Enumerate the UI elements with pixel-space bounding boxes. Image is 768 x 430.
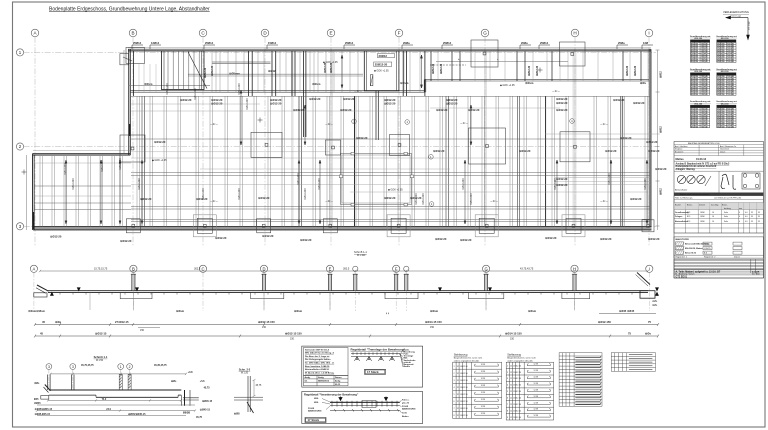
svg-text:12: 12 — [510, 385, 512, 387]
svg-text:②Ø12-200: ②Ø12-200 — [470, 193, 473, 205]
svg-text:①Ø12-20: ①Ø12-20 — [633, 101, 645, 105]
svg-text:Folie: Folie — [724, 216, 728, 218]
svg-text:12: 12 — [510, 365, 512, 367]
regeldetail panel 2 — [302, 392, 423, 424]
svg-text:②Ø12-20: ②Ø12-20 — [440, 63, 443, 74]
svg-text:CEM I: CEM I — [700, 221, 705, 223]
svg-text:4.0: 4.0 — [745, 221, 748, 223]
svg-text:25Ø14: 25Ø14 — [443, 41, 452, 45]
svg-text:Ø12: Ø12 — [691, 126, 694, 128]
svg-text:②Ø12-200: ②Ø12-200 — [72, 178, 75, 190]
svg-text:⑦Øsm: ⑦Øsm — [144, 82, 153, 86]
svg-text:12.50: 12.50 — [463, 387, 468, 389]
svg-text:12.38: 12.38 — [481, 364, 486, 366]
section below labels — [28, 309, 635, 314]
svg-text:Schn. 2-2: Schn. 2-2 — [239, 367, 251, 371]
svg-text:CEM I: CEM I — [700, 216, 705, 218]
svg-text:45: 45 — [732, 125, 734, 128]
svg-text:45: 45 — [42, 320, 45, 324]
svg-text:⑥Ø8: ⑥Ø8 — [234, 412, 240, 416]
hatched columns 1,2 — [119, 375, 131, 391]
svg-text:Beton-: Beton- — [722, 203, 728, 206]
svg-text:20Ø12: 20Ø12 — [379, 54, 388, 58]
svg-text:I: I — [648, 31, 649, 36]
svg-text:4: 4 — [507, 385, 508, 387]
svg-text:Schneider 08/T B 101.4: Schneider 08/T B 101.4 — [305, 348, 330, 351]
section footings — [120, 292, 590, 298]
svg-text:Folie o.: Folie o. — [402, 400, 410, 402]
corner shaft at B — [120, 47, 145, 64]
svg-text:②Øa: ②Øa — [55, 320, 61, 324]
svg-text:12.50: 12.50 — [463, 401, 468, 403]
grid row markers 1-3 — [16, 49, 656, 230]
svg-text:150: 150 — [722, 61, 725, 63]
svg-text:150: 150 — [695, 126, 698, 128]
stair shaft with treads — [162, 51, 205, 90]
svg-text:②Ø12: ②Ø12 — [660, 126, 663, 133]
svg-text:25Ø14: 25Ø14 — [205, 41, 214, 45]
svg-text:↔4×↔: ↔4×↔ — [552, 89, 561, 93]
svg-text:7.53: 7.53 — [727, 94, 731, 96]
svg-text:Biegerollendurchm. wenn nicht: Biegerollendurchm. wenn nicht — [454, 357, 483, 360]
extension top offset line — [33, 150, 130, 152]
detail dims below — [36, 399, 196, 415]
bent bar shapes — [721, 174, 736, 189]
short chain right — [599, 313, 656, 315]
svg-text:75: 75 — [648, 320, 651, 324]
svg-text:Ø8/Ø8: Ø8/Ø8 — [183, 412, 191, 415]
svg-text:B25: B25 — [687, 216, 690, 218]
svg-text:②Ø12-200: ②Ø12-200 — [304, 188, 307, 200]
svg-text:C: C — [201, 266, 204, 271]
svg-text:⑤Øsm: ⑤Øsm — [430, 309, 439, 313]
svg-text:C20/25: C20/25 — [704, 248, 711, 250]
svg-text:①Ø12-20: ①Ø12-20 — [468, 108, 480, 112]
panel2 stueck box — [305, 418, 326, 423]
svg-text:12.50: 12.50 — [463, 394, 468, 396]
svg-text:①Ø12-20: ①Ø12-20 — [270, 102, 282, 106]
spacer marks on slab — [51, 288, 659, 296]
title block header rows — [674, 145, 764, 156]
svg-text:⑤Øsm: ⑤Øsm — [528, 309, 537, 313]
section columns — [131, 274, 577, 291]
svg-text:②Ø12-200: ②Ø12-200 — [608, 173, 611, 185]
svg-text:3: 3 — [48, 365, 50, 369]
svg-text:①Ø12-20: ①Ø12-20 — [630, 197, 642, 201]
svg-text:①Ø12-20: ①Ø12-20 — [556, 183, 568, 187]
svg-text:35: 35 — [758, 216, 760, 218]
detail slab — [41, 385, 185, 406]
svg-text:①Ø12-20: ①Ø12-20 — [120, 239, 132, 243]
svg-text:◆ GOK +1.05: ◆ GOK +1.05 — [323, 61, 338, 64]
svg-text:25Ø14: 25Ø14 — [540, 41, 549, 45]
svg-text:Stahlauszug: Stahlauszug — [507, 354, 521, 357]
regeldetail panel 1 — [302, 346, 423, 387]
svg-text:①Ø12-20: ①Ø12-20 — [556, 177, 568, 181]
svg-text:①Ø12-20: ①Ø12-20 — [433, 149, 445, 153]
svg-text:⑦Øsm/⑦Øsm: ⑦Øsm/⑦Øsm — [28, 309, 46, 313]
svg-text:12Ø14: 12Ø14 — [151, 41, 160, 45]
svg-text:②Ø12: ②Ø12 — [660, 188, 663, 195]
svg-text:CEM I: CEM I — [700, 212, 705, 214]
svg-text:F: F — [398, 31, 401, 36]
svg-text:Bew. beachten 1.048.16: Bew. beachten 1.048.16 — [305, 365, 330, 368]
svg-text:Beton B 25: Beton B 25 — [685, 252, 697, 255]
svg-text:①Ø12-20: ①Ø12-20 — [215, 236, 227, 240]
svg-text:①Ø12-20: ①Ø12-20 — [435, 237, 447, 241]
svg-text:M 1:20: M 1:20 — [241, 372, 249, 374]
svg-text:lü 50: lü 50 — [402, 413, 408, 415]
svg-text:②Ø12-20: ②Ø12-20 — [626, 65, 629, 76]
svg-text:Stegbüro: Stegbüro — [675, 148, 682, 151]
svg-text:①Ø45/②Ø45-15: ①Ø45/②Ø45-15 — [35, 408, 53, 411]
svg-text:deckung: deckung — [724, 208, 731, 210]
svg-text:4: 4 — [454, 387, 455, 389]
svg-text:Halle 3+4 Werkzeugn.: Halle 3+4 Werkzeugn. — [675, 197, 693, 199]
svg-text:4: 4 — [739, 212, 740, 214]
svg-text:8: 8 — [507, 410, 508, 412]
svg-text:9: 9 — [507, 417, 508, 419]
right T detail — [183, 390, 199, 406]
svg-text:4: 4 — [739, 221, 740, 223]
svg-text:②Ø12-20: ②Ø12-20 — [211, 65, 214, 76]
svg-text:12.50: 12.50 — [463, 373, 468, 375]
svg-text:④Øs: ④Øs — [652, 300, 658, 303]
svg-text:①Ø12-20: ①Ø12-20 — [545, 236, 557, 240]
svg-text:Abstandhalter 4.048.16: Abstandhalter 4.048.16 — [305, 368, 330, 371]
rotated labels top band — [204, 62, 637, 78]
circled number callouts — [352, 119, 575, 207]
svg-text:Zuschlag: Zuschlag — [711, 204, 718, 206]
svg-text:7.53: 7.53 — [701, 61, 705, 63]
svg-text:②: ② — [656, 294, 658, 297]
svg-text:12: 12 — [510, 417, 512, 419]
svg-text:①Ø12-20: ①Ø12-20 — [648, 149, 660, 153]
svg-text:Abstandhalter: Abstandhalter — [675, 189, 688, 192]
svg-text:35: 35 — [751, 221, 753, 223]
svg-text:12.50: 12.50 — [516, 365, 521, 367]
svg-text:Ø08-: Ø08- — [314, 402, 319, 404]
svg-text:4.0: 4.0 — [745, 216, 748, 218]
svg-text:B25: B25 — [687, 221, 690, 223]
svg-text:②Ø12-200: ②Ø12-200 — [101, 160, 104, 172]
svg-text:02.: 02. — [305, 381, 308, 383]
svg-text:35: 35 — [751, 216, 753, 218]
svg-text:⑦Øsm: ⑦Øsm — [525, 81, 534, 85]
svg-text:12: 12 — [510, 398, 512, 400]
extra top band callouts — [144, 58, 646, 86]
svg-text:①Ø12-20: ①Ø12-20 — [605, 149, 617, 153]
svg-text:②Ø12-20: ②Ø12-20 — [432, 63, 435, 74]
svg-text:7.53: 7.53 — [701, 94, 705, 96]
svg-text:①Ø12-20: ①Ø12-20 — [309, 97, 321, 101]
svg-text:7: 7 — [507, 404, 508, 406]
svg-text:①Ø12-20: ①Ø12-20 — [340, 108, 352, 112]
svg-text:②Ø12-200: ②Ø12-200 — [238, 188, 241, 200]
svg-text:45,75,45,75: 45,75,45,75 — [81, 364, 94, 367]
svg-text:Iändg.: Iändg. — [318, 377, 325, 379]
section hanger ticks — [60, 292, 632, 294]
panel1 leader fan — [400, 350, 403, 368]
svg-text:①Ø12-20: ①Ø12-20 — [556, 101, 568, 105]
svg-text:Die Bew. der 2. Lage ist: Die Bew. der 2. Lage ist — [305, 355, 330, 358]
svg-text:12.50: 12.50 — [516, 410, 521, 412]
svg-text:⑦Ø45: ⑦Ø45 — [34, 402, 41, 405]
svg-text:①Ø12-20: ①Ø12-20 — [646, 140, 658, 144]
svg-text:Registriert: 2: Registriert: 2 — [704, 256, 716, 259]
svg-text:12: 12 — [457, 380, 459, 382]
svg-text:⑤Ø14-15 150: ⑤Ø14-15 150 — [425, 320, 442, 324]
svg-text:④Ø45/②Ø45-15: ④Ø45/②Ø45-15 — [128, 413, 146, 416]
svg-text:35: 35 — [758, 212, 760, 214]
revision table — [674, 259, 764, 278]
dark band — [674, 193, 764, 196]
svg-text:25Ø14: 25Ø14 — [345, 41, 354, 45]
svg-text:6: 6 — [454, 401, 455, 403]
svg-text:Ø12: Ø12 — [717, 94, 720, 96]
svg-text:②Ø12-200: ②Ø12-200 — [644, 178, 647, 190]
svg-text:Ø12: Ø12 — [691, 94, 694, 96]
svg-text:②Ø12-200: ②Ø12-200 — [462, 178, 465, 190]
svg-text:12.50: 12.50 — [516, 417, 521, 419]
svg-text:②Ø12-200: ②Ø12-200 — [554, 178, 557, 190]
title block — [674, 142, 764, 279]
floor plan outline — [33, 49, 652, 230]
svg-text:unt. Lage: unt. Lage — [748, 20, 751, 30]
svg-text:12.38: 12.38 — [534, 409, 539, 411]
right end labels — [652, 288, 658, 307]
svg-text:25Øa: 25Øa — [618, 41, 625, 45]
svg-text:⑤Øs: ⑤Øs — [652, 304, 658, 307]
svg-text:16: 16 — [712, 216, 714, 218]
svg-text:300,5: 300,5 — [343, 267, 350, 270]
svg-text:①Ø12-20: ①Ø12-20 — [600, 237, 612, 241]
svg-text:45,75: 45,75 — [196, 416, 203, 419]
svg-text:45: 45 — [706, 125, 708, 128]
svg-text:17 Stück: 17 Stück — [308, 418, 320, 422]
svg-text:6: 6 — [507, 398, 508, 400]
svg-text:↔4×↔: ↔4×↔ — [600, 199, 609, 203]
stair labels — [374, 54, 395, 67]
svg-text:12.50: 12.50 — [516, 372, 521, 374]
svg-text:①Ø12-20: ①Ø12-20 — [655, 167, 667, 171]
svg-text:②Ø12-200: ②Ø12-200 — [422, 193, 425, 205]
detail columns — [48, 375, 74, 391]
svg-text:E: E — [329, 31, 332, 36]
svg-text:17 Stück: 17 Stück — [367, 370, 379, 374]
svg-text:WN: 246-47 Sm der Bewg. 4: WN: 246-47 Sm der Bewg. 4 — [305, 352, 334, 355]
svg-text:Schnitt 1-1: Schnitt 1-1 — [94, 355, 108, 359]
svg-text:5: 5 — [454, 394, 455, 396]
svg-text:12.50: 12.50 — [463, 415, 468, 417]
svg-text:Gezeichnet: Gezeichnet — [720, 148, 730, 151]
svg-text:Teil / Blatt: Teil / Blatt — [752, 273, 761, 276]
svg-text:12.38: 12.38 — [481, 371, 486, 373]
svg-text:12.38: 12.38 — [481, 406, 486, 408]
svg-text:12: 12 — [457, 366, 459, 368]
svg-text:75: 75 — [628, 331, 631, 335]
svg-text:anders angegeben dbr=4ds: anders angegeben dbr=4ds — [454, 359, 479, 362]
svg-text:20Øa: 20Øa — [521, 41, 528, 45]
svg-text:①Ø5mm: ①Ø5mm — [229, 72, 240, 76]
svg-text:①Ø12-20: ①Ø12-20 — [343, 97, 355, 101]
top edge offset line — [128, 47, 651, 49]
svg-text:↔4×↔: ↔4×↔ — [490, 199, 499, 203]
spacer symbol circles — [677, 175, 711, 186]
panel1 mini table — [304, 376, 349, 386]
svg-text:②Ø12-200: ②Ø12-200 — [318, 178, 321, 190]
svg-text:12.50: 12.50 — [516, 398, 521, 400]
svg-text:⑥Øs: ⑥Øs — [171, 380, 177, 383]
svg-text:I: I — [649, 266, 650, 271]
svg-text:3: 3 — [454, 380, 455, 382]
svg-text:↔4×↔: ↔4×↔ — [460, 121, 469, 125]
svg-text:Datum: Datum — [734, 256, 740, 259]
svg-text:②Ø12-20: ②Ø12-20 — [204, 67, 207, 78]
svg-text:①Ø12-20: ①Ø12-20 — [648, 237, 660, 241]
svg-text:①Ø12-20: ①Ø12-20 — [620, 136, 632, 140]
bottom table 4 (small) — [611, 353, 655, 372]
svg-text:①Ø12-20: ①Ø12-20 — [270, 98, 282, 102]
dimension chain 2 — [34, 335, 659, 338]
panel2 arrows — [339, 397, 388, 401]
svg-text:②Ø12-200: ②Ø12-200 — [64, 163, 67, 175]
svg-text:12.50: 12.50 — [463, 366, 468, 368]
section view grid circles — [30, 265, 653, 311]
svg-text:BAUSTAHLGEWEBEMATTEN G 500: BAUSTAHLGEWEBEMATTEN G 500 — [688, 142, 719, 145]
svg-text:von OK610+4.6 auf OK FFB -0.80: von OK610+4.6 auf OK FFB -0.80 — [714, 197, 741, 199]
svg-text:⑤Øsm: ⑤Øsm — [176, 309, 185, 313]
bold description lines — [676, 162, 730, 171]
svg-text:1: 1 — [120, 365, 122, 369]
svg-text:①Ø12-20: ①Ø12-20 — [384, 98, 396, 102]
column pads — [120, 40, 654, 237]
baustoffe block — [674, 237, 764, 258]
svg-text:Bodenplatte Erdgeschoss, Grund: Bodenplatte Erdgeschoss, Grundbewehrung … — [49, 7, 210, 13]
svg-text:12: 12 — [510, 404, 512, 406]
dimension chain 1 — [34, 323, 659, 326]
svg-text:12: 12 — [510, 372, 512, 374]
svg-text:150: 150 — [140, 329, 145, 332]
svg-text:12.38: 12.38 — [481, 392, 486, 394]
svg-text:②Ø12-200: ②Ø12-200 — [138, 178, 141, 190]
svg-text:2: 2 — [129, 365, 131, 369]
svg-text:Folie: Folie — [724, 212, 728, 214]
svg-text:12: 12 — [510, 378, 512, 380]
svg-text:Amt f. Bauwesen 1a: Amt f. Bauwesen 1a — [720, 145, 736, 148]
svg-text:4: 4 — [739, 216, 740, 218]
grid column markers A-I — [31, 29, 653, 246]
svg-text:H: H — [573, 31, 576, 36]
svg-text:①Ø12-20: ①Ø12-20 — [180, 98, 192, 102]
svg-text:①Ø12-20: ①Ø12-20 — [519, 149, 531, 153]
svg-text:12.50: 12.50 — [516, 391, 521, 393]
svg-text:8: 8 — [454, 415, 455, 417]
svg-text:mm: mm — [739, 208, 742, 210]
svg-text:Beton-: Beton- — [687, 203, 693, 206]
panel1 diagram — [351, 352, 400, 361]
svg-text:ABDECKUNG: ABDECKUNG — [402, 408, 416, 411]
svg-text:②Ø12-200: ②Ø12-200 — [246, 98, 249, 110]
svg-text:①Ø12-20: ①Ø12-20 — [356, 136, 368, 140]
svg-text:G: G — [483, 31, 487, 36]
svg-text:12: 12 — [457, 415, 459, 417]
svg-text:①Ø12-20: ①Ø12-20 — [293, 108, 305, 112]
svg-text:A: A — [33, 266, 36, 271]
svg-text:45,35,45,75: 45,35,45,75 — [154, 364, 167, 367]
svg-text:Datum: Datum — [720, 150, 726, 153]
svg-text:①Ø12-20: ①Ø12-20 — [613, 98, 625, 102]
svg-text:Biegerollendurchm. wenn nicht: Biegerollendurchm. wenn nicht — [507, 357, 536, 360]
svg-text:SB/09/2013: SB/09/2013 — [318, 381, 330, 383]
svg-text:150: 150 — [722, 126, 725, 128]
svg-text:Zement: Zement — [699, 203, 706, 206]
svg-text:①Ø12-20: ①Ø12-20 — [446, 102, 458, 106]
svg-text:12.50: 12.50 — [516, 378, 521, 380]
svg-text:BAUSTOFFE: BAUSTOFFE — [676, 238, 690, 241]
svg-text:①Ø12-20: ①Ø12-20 — [154, 140, 166, 144]
svg-text:Regeldetail "Trennlage der Bew: Regeldetail "Trennlage der Bewehrung" — [351, 348, 406, 352]
svg-text:①Ø12-20: ①Ø12-20 — [384, 196, 396, 200]
svg-text:◆ GOK +1.05: ◆ GOK +1.05 — [374, 70, 389, 73]
svg-text:12: 12 — [510, 391, 512, 393]
svg-text:①Ø12-20: ①Ø12-20 — [258, 196, 270, 200]
svg-text:Registriert: 1: Registriert: 1 — [676, 256, 688, 259]
svg-text:①: ① — [656, 288, 658, 291]
svg-text:②Ø12-15: ②Ø12-15 — [95, 331, 107, 335]
svg-text:①Ø12-20: ①Ø12-20 — [300, 238, 312, 242]
svg-text:150: 150 — [722, 94, 725, 96]
faint horizontal rebar lines — [34, 104, 660, 196]
svg-text:12: 12 — [510, 410, 512, 412]
svg-text:①Ø12-20: ①Ø12-20 — [384, 102, 396, 106]
svg-text:12.50: 12.50 — [516, 385, 521, 387]
panel2 diagram — [330, 401, 400, 412]
svg-text:12.38: 12.38 — [534, 370, 539, 372]
svg-text:150: 150 — [262, 326, 267, 329]
svg-text:150: 150 — [695, 61, 698, 63]
svg-text:⑥Ø12-150: ⑥Ø12-150 — [598, 320, 611, 324]
svg-text:12: 12 — [457, 408, 459, 410]
svg-text:Ø12: Ø12 — [717, 61, 720, 63]
svg-text:Boden: Boden — [402, 416, 409, 418]
svg-text:7: 7 — [454, 408, 455, 410]
svg-text:12: 12 — [457, 401, 459, 403]
svg-text:④Ø12-15 150: ④Ø12-15 150 — [258, 320, 275, 324]
svg-text:⑤Øsm: ⑤Øsm — [294, 309, 303, 313]
svg-text:②Ø12-200: ②Ø12-200 — [166, 83, 169, 95]
svg-text:12: 12 — [457, 373, 459, 375]
svg-text:untere Lage: untere Lage — [730, 15, 742, 18]
svg-text:Stahlauszug: Stahlauszug — [454, 354, 468, 357]
floor opening — [341, 154, 412, 205]
svg-text:↔4×↔: ↔4×↔ — [210, 122, 219, 126]
svg-text:2: 2 — [454, 373, 455, 375]
svg-text:12.50: 12.50 — [516, 404, 521, 406]
svg-text:74.0: 74.0 — [102, 398, 107, 401]
svg-text:⑦Øsm: ⑦Øsm — [312, 82, 321, 86]
svg-text:1: 1 — [454, 366, 455, 368]
svg-text:↔4×↔: ↔4×↔ — [600, 122, 609, 126]
svg-text:150: 150 — [695, 94, 698, 96]
svg-text:3: 3 — [72, 365, 74, 369]
svg-text:①Ø12-20: ①Ø12-20 — [262, 234, 274, 238]
light gray wall bands — [291, 51, 577, 226]
svg-text:Anlagen: Übersig.: Anlagen: Übersig. — [676, 168, 696, 171]
svg-text:②Ø45-15: ②Ø45-15 — [200, 408, 211, 411]
svg-text:150: 150 — [290, 337, 295, 340]
svg-text:+5.6: +5.6 — [200, 380, 205, 383]
